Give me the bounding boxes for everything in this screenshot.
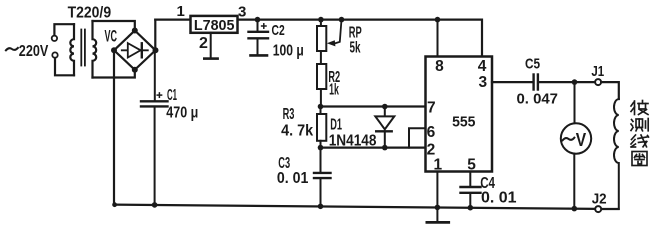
pin 1 lead: [436, 172, 438, 208]
svg-text:L7805: L7805: [194, 17, 235, 34]
svg-text:5: 5: [467, 157, 476, 174]
voltmeter lead bottom: [573, 154, 575, 209]
wire secondary top to bridge top vertex: [93, 21, 135, 31]
wire bridge right vertex to top rail: [154, 20, 156, 51]
char Bei: [631, 101, 648, 115]
node dot C4 bottom: [468, 205, 474, 211]
node dot voltmeter bottom: [572, 206, 578, 212]
C2 plus sign: [262, 25, 266, 27]
node dot C1 bottom: [152, 202, 158, 208]
svg-text:0. 01: 0. 01: [277, 170, 309, 187]
transformer core: [80, 30, 82, 66]
svg-text:555: 555: [452, 115, 475, 131]
bottom rail: [114, 205, 595, 209]
terminal top input: [52, 36, 57, 41]
wire pin 2: [321, 147, 426, 149]
svg-text:C5: C5: [525, 56, 540, 73]
node dot C3 bottom: [318, 204, 324, 210]
node dot D1 bottom: [382, 145, 388, 151]
C1 plus sign: [157, 94, 161, 96]
svg-text:6: 6: [427, 124, 436, 141]
capacitor C1: [154, 50, 156, 100]
bridge inner diode: [122, 49, 148, 51]
svg-text:C1: C1: [167, 87, 177, 104]
svg-text:470 μ: 470 μ: [166, 104, 198, 121]
svg-text:100 μ: 100 μ: [273, 42, 304, 59]
label coil under test (hand-drawn CJK strokes): [631, 101, 649, 166]
svg-text:1k: 1k: [329, 82, 339, 99]
svg-text:8: 8: [435, 58, 444, 75]
pin 6 stub and jog to pin2 wire: [409, 128, 426, 147]
svg-text:0. 01: 0. 01: [481, 190, 517, 207]
ground symbol below rail: [436, 207, 438, 221]
node dot rail left corner: [112, 202, 117, 207]
wire RP to R2: [320, 51, 322, 64]
timer U1 555 box: [426, 57, 493, 172]
svg-text:4. 7k: 4. 7k: [281, 122, 313, 139]
svg-text:220V: 220V: [19, 43, 49, 60]
node dot C2 junction: [255, 17, 261, 23]
svg-text:R3: R3: [283, 106, 295, 123]
node dot pin1 on rail: [435, 205, 441, 211]
node dot RP wiper on rail: [339, 17, 345, 23]
L7805 ground stub: [210, 33, 212, 58]
capacitor C3: [320, 148, 322, 172]
transformer primary winding: [70, 24, 74, 75]
svg-text:C2: C2: [272, 22, 285, 39]
voltmeter lead top: [574, 82, 576, 123]
wire bridge left vertex to bottom rail: [113, 50, 115, 204]
wire R2 bottom to pin7 node: [320, 89, 322, 107]
svg-text:1: 1: [177, 3, 185, 20]
regulator U2 L7805 box: [191, 16, 238, 33]
terminal J1: [595, 79, 601, 85]
svg-text:T220/9: T220/9: [68, 5, 112, 22]
svg-text:4: 4: [478, 58, 487, 75]
top rail left segment: [155, 19, 190, 21]
pin 8 riser: [437, 20, 439, 57]
node ~220V label: [6, 48, 18, 50]
capacitor C4: [461, 186, 481, 188]
svg-text:J1: J1: [591, 63, 604, 80]
svg-text:0. 047: 0. 047: [517, 90, 559, 107]
svg-text:3: 3: [238, 4, 246, 21]
svg-text:2: 2: [199, 35, 208, 52]
node dot R3 bottom: [318, 145, 324, 151]
svg-text:J2: J2: [592, 190, 607, 207]
bridge rectifier VC diamond: [114, 31, 156, 70]
capacitor C2: [257, 20, 259, 31]
node dot voltmeter top: [572, 79, 578, 85]
L7805 ground bar: [204, 57, 217, 60]
char Xian: [631, 135, 649, 147]
wire pin 3 to C5: [492, 81, 532, 83]
transformer secondary winding: [93, 21, 97, 78]
terminal bottom input: [52, 52, 57, 57]
terminal J2: [595, 206, 601, 212]
node dot RP top: [318, 17, 324, 23]
top rail right segment with pin4 drop: [238, 20, 483, 57]
potentiometer RP: [320, 20, 322, 26]
bridge vertex dots: [111, 28, 159, 73]
node dot pin8 on rail: [435, 17, 441, 23]
wire C5 to J1: [539, 81, 595, 83]
resistor R3: [320, 107, 322, 115]
svg-text:3: 3: [478, 74, 487, 91]
node dot D1 top: [382, 104, 388, 110]
svg-text:D1: D1: [330, 116, 342, 133]
wire bottom terminal to primary: [55, 58, 74, 75]
C2 ground bar: [251, 54, 268, 57]
char Ce: [631, 119, 648, 131]
capacitor C5: [532, 75, 534, 90]
wire top terminal to primary: [54, 24, 74, 35]
inductor coil under test: [614, 99, 619, 209]
diode D1: [384, 107, 386, 117]
char Quan: [632, 152, 647, 166]
wire pin 7: [321, 105, 426, 107]
node dot R2/R3/pin7: [318, 104, 324, 110]
svg-text:5k: 5k: [350, 40, 361, 57]
RP wiper arm: [335, 20, 342, 44]
resistor R2: [317, 64, 326, 89]
svg-text:7: 7: [427, 100, 436, 117]
wire secondary bottom to bridge bottom vertex: [93, 70, 135, 78]
wire J1 to coil: [601, 82, 619, 99]
svg-text:VC: VC: [105, 28, 118, 46]
voltmeter M1: [561, 123, 591, 153]
pin 5 lead: [469, 172, 471, 187]
svg-text:V: V: [576, 130, 586, 150]
